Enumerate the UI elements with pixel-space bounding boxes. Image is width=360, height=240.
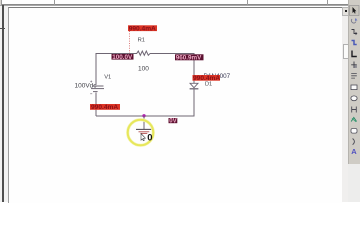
svg-text:V1: V1 <box>104 74 111 80</box>
svg-text:990.4mA: 990.4mA <box>193 75 220 82</box>
svg-text:D1: D1 <box>205 81 212 87</box>
svg-text:100: 100 <box>138 66 149 73</box>
svg-text:0V: 0V <box>169 119 176 125</box>
svg-text:990.4mA: 990.4mA <box>129 26 156 33</box>
svg-text:960.9mV: 960.9mV <box>176 55 202 62</box>
svg-text:0: 0 <box>147 133 152 144</box>
svg-text:100.0V: 100.0V <box>112 54 133 61</box>
svg-text:990.4mA: 990.4mA <box>91 104 118 111</box>
svg-text:R1: R1 <box>138 37 145 43</box>
